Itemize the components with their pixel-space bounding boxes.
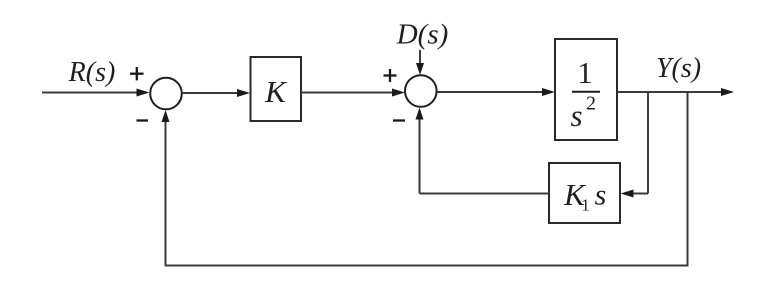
arrowhead into K1s right side	[621, 190, 634, 198]
svg-text:2: 2	[586, 93, 596, 115]
summing junction S1	[150, 78, 182, 110]
svg-text:R(s): R(s)	[68, 57, 116, 88]
node: outer feedback tap	[687, 92, 689, 267]
arrowhead into 1/s^2	[542, 88, 555, 96]
wire: S2 to block 1/s^2	[437, 91, 544, 93]
svg-text:1: 1	[577, 55, 593, 90]
arrowhead into K	[237, 89, 250, 97]
wire: tap to K1s block	[631, 193, 648, 195]
minus sign at summer S1	[137, 119, 149, 121]
svg-text:s: s	[595, 179, 607, 212]
minus sign at summer S2	[393, 119, 405, 121]
wire: S1 to block K	[182, 92, 239, 94]
svg-text:s: s	[570, 98, 582, 133]
wire: up into S2 bottom	[419, 117, 421, 194]
arrowhead down into S2 top	[416, 63, 424, 75]
wire: K to summer S2	[301, 92, 394, 94]
arrowhead into summer S2	[392, 89, 405, 97]
arrowhead up into S2 bottom	[416, 108, 424, 120]
wire: D(s) down into summer S2	[419, 50, 421, 66]
node: inner feedback tap	[647, 92, 649, 194]
block K1s	[549, 163, 620, 223]
svg-text:Y(s): Y(s)	[656, 53, 701, 84]
wire: up into S1 bottom	[165, 120, 167, 267]
arrowhead into summer S1	[137, 89, 150, 97]
wire: output line to Y(s)	[617, 91, 723, 93]
wire: bottom feedback line	[165, 265, 689, 267]
arrowhead output	[721, 88, 734, 96]
plus sign at summer S1	[130, 67, 144, 80]
plus sign at summer S2	[384, 69, 397, 82]
svg-text:D(s): D(s)	[396, 19, 449, 51]
wire: input R(s) line	[42, 92, 138, 94]
block 1/s^2	[555, 39, 617, 140]
wire: K1s output left	[420, 193, 550, 195]
summing junction S2	[405, 75, 437, 107]
arrowhead up into S1 bottom	[162, 110, 170, 122]
svg-text:1: 1	[581, 196, 590, 215]
svg-text:K: K	[264, 74, 288, 109]
block K	[251, 57, 302, 121]
